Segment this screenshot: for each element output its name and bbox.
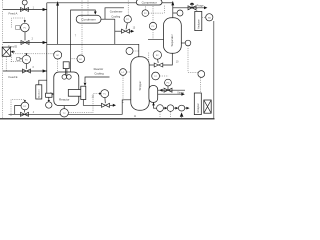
wire feed D line (stream 2) xyxy=(3,42,47,44)
controller LC stripper xyxy=(120,69,127,76)
signal dashed to TC condenser xyxy=(127,1,129,16)
wire condenser CW valve line xyxy=(115,30,122,32)
analyzer on purge xyxy=(195,11,202,30)
controller FC feed D xyxy=(21,23,30,32)
valve reactor CW xyxy=(102,103,110,107)
svg-text:TC: TC xyxy=(154,76,157,78)
valve stem condenser CW xyxy=(126,23,127,29)
signal dashed to LC reactor xyxy=(81,1,83,55)
reactor cooling coil xyxy=(68,90,81,97)
wire recycle top header xyxy=(47,2,137,4)
signal dashed above condenser xyxy=(87,1,89,18)
wire condenser cooling water inlet xyxy=(105,8,124,19)
analyzer reactor feed xyxy=(36,85,42,99)
controller PC compressor xyxy=(142,10,149,17)
arrow into X box xyxy=(11,50,14,53)
valve stem feed D xyxy=(24,32,26,41)
separator vessel xyxy=(164,18,182,53)
arrow into product pump xyxy=(180,112,184,116)
controller FC separator liquid xyxy=(153,51,161,59)
svg-text:SC: SC xyxy=(56,55,59,57)
wire reactor product riser (stream 7) xyxy=(71,10,96,72)
valve separator liquid xyxy=(154,63,163,67)
valve Feed C xyxy=(21,112,29,116)
svg-text:Condenser: Condenser xyxy=(110,9,123,13)
svg-text:TC: TC xyxy=(103,94,106,96)
svg-text:Analyzer: Analyzer xyxy=(38,89,41,98)
svg-text:Reactor: Reactor xyxy=(59,97,70,101)
svg-text:Reactor: Reactor xyxy=(94,67,104,71)
instrument circle reactor bottom xyxy=(46,102,52,108)
wire condensate line xyxy=(158,93,183,95)
right figure border xyxy=(213,21,215,119)
controller FC feed E xyxy=(25,53,27,56)
svg-text:FC: FC xyxy=(24,106,27,108)
signal dashed TC reactor to CW valve xyxy=(69,94,100,113)
controller FC feed C xyxy=(15,106,21,115)
purge-like X box at left edge xyxy=(2,47,10,56)
controller steam xyxy=(165,79,172,86)
X box product xyxy=(204,100,211,113)
svg-text:Feed E: Feed E xyxy=(9,75,18,79)
svg-text:FC: FC xyxy=(79,59,82,61)
svg-text:Stripper: Stripper xyxy=(138,81,142,91)
instrument circle stirrer xyxy=(54,51,62,59)
signal dashed to FC feed C xyxy=(11,100,25,117)
svg-text:PC: PC xyxy=(144,13,147,15)
valve steam xyxy=(164,86,172,92)
svg-text:FC: FC xyxy=(25,59,28,61)
signal dashes around PI xyxy=(152,6,154,22)
left dashed figure border xyxy=(2,0,4,119)
svg-text:Cooling: Cooling xyxy=(111,14,120,18)
compressor xyxy=(136,0,162,5)
signal dashed to FC (feed D controller) xyxy=(12,18,25,28)
wire feed A line (stream 1) xyxy=(3,9,47,11)
valve condenser CW xyxy=(122,29,130,33)
controller LC reactor xyxy=(72,58,77,60)
agitator impeller xyxy=(62,75,67,80)
svg-text:TC: TC xyxy=(126,19,129,21)
instrument circle purge xyxy=(173,12,177,14)
wire purge line (stream 9) xyxy=(173,7,205,9)
signal dashes below product instruments xyxy=(159,112,161,118)
svg-text:Analyzer: Analyzer xyxy=(197,19,200,29)
wire feed C line (stream 4) to stripper xyxy=(9,100,132,115)
wire condenser outlet downcomer xyxy=(101,18,115,20)
wire reactor CW outlet xyxy=(83,100,101,106)
setpoint box reactor xyxy=(46,93,52,97)
svg-text:TC: TC xyxy=(63,113,66,115)
valve Feed D xyxy=(21,41,29,45)
controller TC condenser xyxy=(124,16,131,23)
wire separator inlet xyxy=(148,38,165,40)
instrument circle product 1 xyxy=(157,105,164,112)
svg-text:Condenser: Condenser xyxy=(82,17,96,21)
signal dashed compressor xyxy=(149,6,165,14)
controller TC reactor CW xyxy=(101,90,109,98)
analyzer on product xyxy=(194,93,201,115)
agitator shaft xyxy=(65,69,67,77)
instrument circle below xyxy=(152,72,160,80)
pump ellipse product xyxy=(178,105,184,111)
arrow stream 5 joining recycle xyxy=(57,3,59,45)
signal dashed feed E / stirrer line xyxy=(13,53,53,55)
valve stem feed C xyxy=(24,110,26,113)
svg-text:PC: PC xyxy=(152,26,155,28)
valve Feed E xyxy=(23,69,31,73)
reactor vessel xyxy=(54,72,79,106)
svg-text:FC: FC xyxy=(24,28,27,30)
wire separator vapor riser (stream 8) xyxy=(172,3,174,18)
stripper vessel xyxy=(131,57,149,110)
wire reactor CW inlet xyxy=(85,77,110,82)
wire separator liquid (stream 10) xyxy=(163,53,173,65)
instrument circle near separator top xyxy=(149,22,156,29)
instrument circle analyzer purge xyxy=(206,14,213,21)
valve purge xyxy=(188,5,196,10)
instrument circle product 2 xyxy=(167,105,174,112)
bottom figure border xyxy=(0,118,215,120)
controller TC reactor xyxy=(60,109,68,117)
reboiler xyxy=(149,86,158,103)
svg-text:Compressor: Compressor xyxy=(142,1,157,5)
condenser xyxy=(76,15,101,23)
valve stem feed E xyxy=(25,64,27,69)
wire feed E line (stream 3) xyxy=(3,70,47,72)
svg-text:Analyzer: Analyzer xyxy=(197,103,200,113)
setpoint box feed A xyxy=(16,26,20,30)
svg-text:Cooling: Cooling xyxy=(94,71,104,75)
valve Feed A xyxy=(21,0,29,12)
instrument circle stripper overhead xyxy=(126,48,133,55)
svg-text:FC: FC xyxy=(156,55,159,57)
wire combined feed header xyxy=(46,3,48,94)
svg-text:FC: FC xyxy=(167,83,170,85)
agitator motor xyxy=(63,62,69,69)
svg-text:Purge: Purge xyxy=(197,3,204,7)
wire steam line xyxy=(158,89,185,91)
signal dashes separator to analyzer product xyxy=(187,46,189,73)
wire stripper overhead long line (stream 5) xyxy=(47,44,139,57)
svg-text:Separator: Separator xyxy=(170,34,174,46)
svg-text:Feed A: Feed A xyxy=(9,12,18,16)
wire reactor inlet xyxy=(47,93,52,95)
wire product line (stream 11) xyxy=(154,102,157,108)
instrument circle separator level xyxy=(181,42,185,44)
